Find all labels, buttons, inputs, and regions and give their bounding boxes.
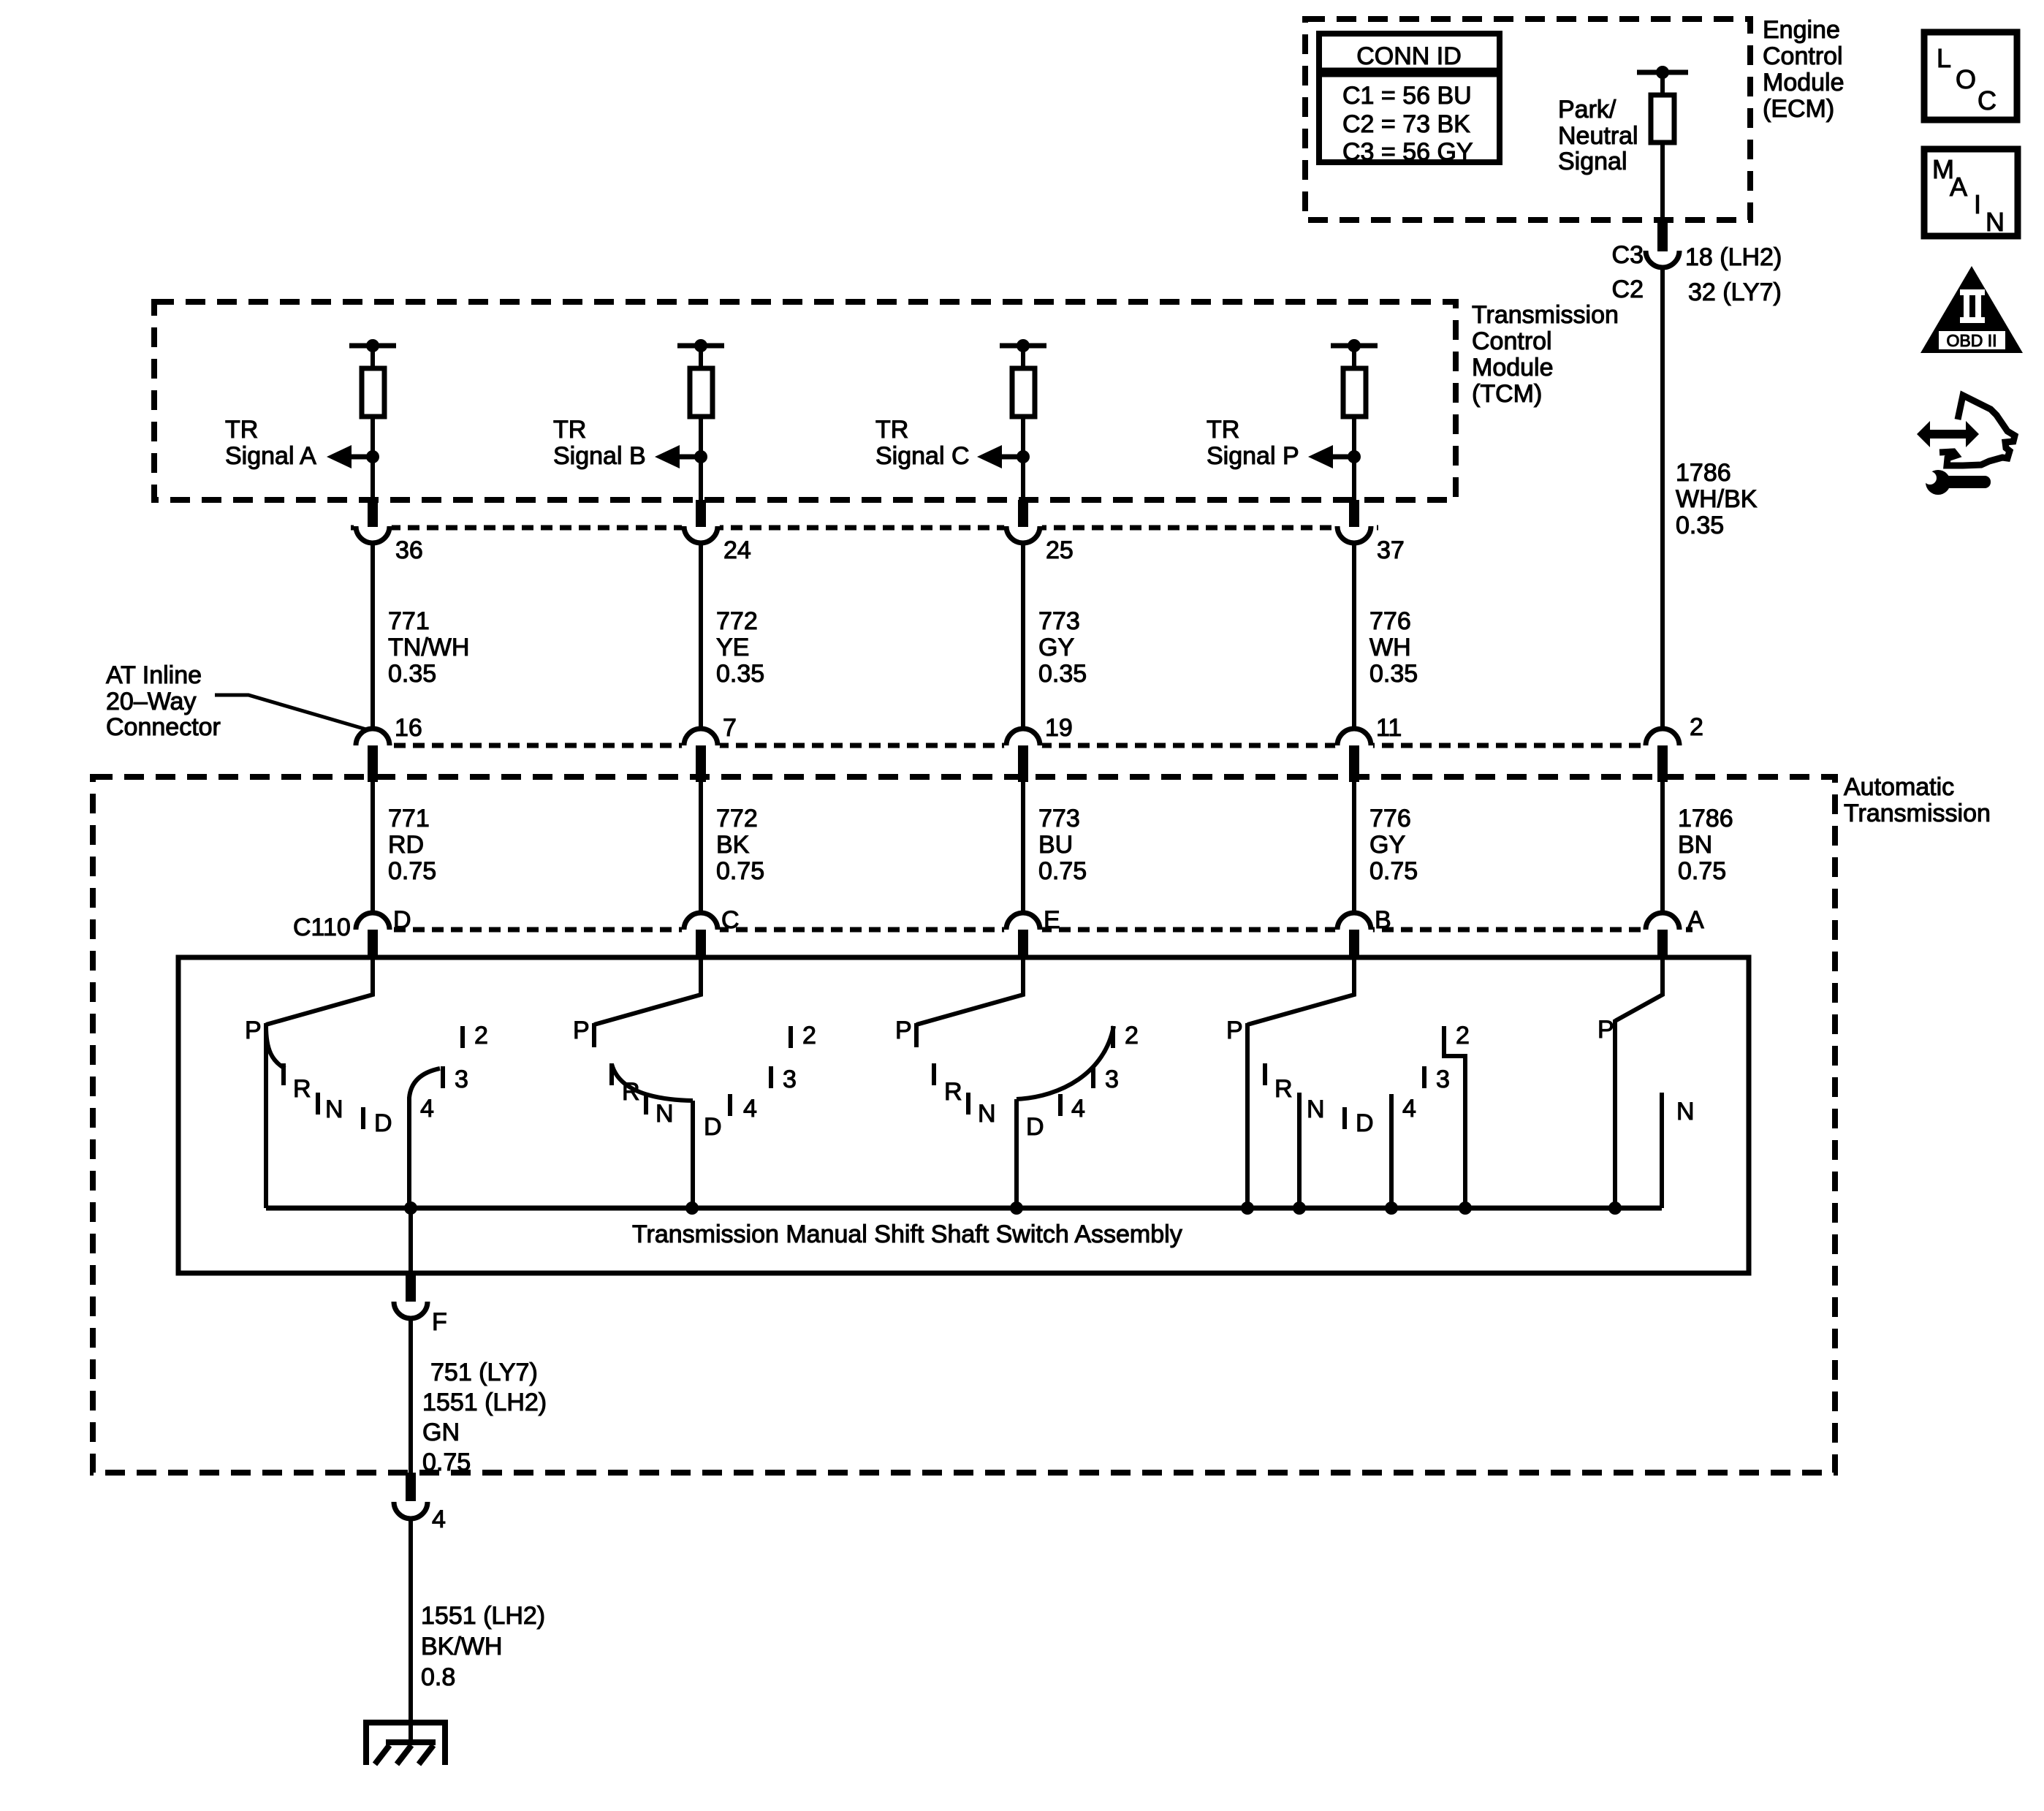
svg-text:Connector: Connector — [106, 713, 221, 741]
svg-text:C3: C3 — [1612, 241, 1644, 269]
switch 2 labels P R N D 4 3 2 — [573, 1017, 816, 1141]
connector cup row1 pin 36 — [356, 526, 390, 543]
switch 4 labels P R N D 4 3 2 — [1226, 1017, 1470, 1137]
icon MAIN box — [1924, 149, 2018, 237]
label Transmission Control Module (TCM) — [1472, 301, 1619, 408]
svg-text:P: P — [573, 1017, 590, 1044]
svg-text:N: N — [656, 1100, 674, 1128]
wire label 771 TN/WH 0.35 — [388, 607, 469, 688]
resistor Park/Neutral Signal — [1651, 95, 1674, 143]
svg-text:GY: GY — [1038, 634, 1074, 661]
svg-text:TR: TR — [875, 416, 908, 444]
svg-text:Signal A: Signal A — [225, 442, 316, 470]
wire col C row2 to row3 (773 BU) — [1021, 776, 1025, 914]
svg-text:11: 11 — [1376, 714, 1402, 742]
svg-text:4: 4 — [1071, 1095, 1085, 1123]
svg-text:772: 772 — [716, 805, 758, 832]
svg-text:TN/WH: TN/WH — [388, 634, 469, 661]
connector arc row2 pin 11 — [1337, 729, 1371, 745]
switch 4 common wire from pin B — [1247, 956, 1354, 1025]
label Engine Control Module (ECM) — [1763, 16, 1844, 123]
wire col A row1 to row2 (771 TN/WH) — [371, 543, 375, 730]
svg-text:TR: TR — [553, 416, 586, 444]
svg-text:B: B — [1375, 906, 1391, 934]
wire col A resistor to TCM border — [366, 417, 379, 500]
svg-text:3: 3 — [455, 1066, 468, 1093]
svg-text:Signal B: Signal B — [553, 442, 646, 470]
svg-text:773: 773 — [1038, 805, 1080, 832]
connector pin stub row2 right — [1657, 745, 1668, 782]
svg-text:O: O — [1956, 64, 1976, 94]
svg-text:GN: GN — [422, 1419, 460, 1446]
svg-text:RD: RD — [388, 831, 424, 859]
svg-text:0.75: 0.75 — [1369, 857, 1418, 885]
ground symbol — [364, 1720, 447, 1765]
connector arc row2 pin 7 — [684, 729, 718, 745]
svg-text:C1 = 56 BU: C1 = 56 BU — [1342, 82, 1472, 110]
switch 3 labels P R N D 4 3 2 — [895, 1017, 1139, 1141]
svg-text:A: A — [1687, 906, 1704, 934]
wire label 771 RD 0.75 — [388, 805, 436, 885]
labels C3 18 (LH2) / C2 32 (LY7) — [1612, 241, 1782, 306]
connector pin stub row3 col B — [696, 930, 706, 956]
wire col P T-bar to resistor — [1352, 346, 1356, 370]
svg-text:776: 776 — [1369, 607, 1411, 635]
connector pin stub row1 col C — [1018, 500, 1028, 527]
connector pin stub F — [406, 1273, 416, 1302]
svg-text:N: N — [1307, 1096, 1325, 1123]
switch 4 N vertical to bus — [1297, 1093, 1302, 1208]
wire col B resistor to TCM border — [694, 417, 707, 500]
svg-text:773: 773 — [1038, 607, 1080, 635]
svg-text:N: N — [325, 1096, 343, 1123]
label TR Signal P — [1207, 416, 1299, 470]
svg-text:771: 771 — [388, 607, 430, 635]
wire label 773 BU 0.75 — [1038, 805, 1087, 885]
wire col A T-bar to resistor — [371, 346, 375, 370]
connector erase masks — [354, 233, 1682, 949]
icon service/check symbol — [1917, 395, 2015, 495]
wire ECM T to resistor — [1660, 72, 1665, 96]
svg-text:BU: BU — [1038, 831, 1073, 859]
svg-text:L: L — [1937, 43, 1951, 73]
label TR Signal B — [553, 416, 646, 470]
wire col C T-bar to resistor — [1021, 346, 1025, 370]
svg-text:2: 2 — [1125, 1022, 1139, 1049]
svg-text:Transmission: Transmission — [1472, 301, 1619, 329]
svg-text:37: 37 — [1377, 536, 1405, 564]
wire col P resistor to TCM border — [1348, 417, 1361, 500]
wire label 751 (LY7) 1551 (LH2) GN 0.75 — [422, 1359, 547, 1476]
svg-text:Signal P: Signal P — [1207, 442, 1299, 470]
svg-text:C2: C2 — [1612, 276, 1644, 303]
wire col A row2 to row3 (771 RD) — [371, 776, 375, 914]
svg-text:20–Way: 20–Way — [106, 688, 196, 715]
svg-text:C110: C110 — [293, 914, 351, 941]
wire switch output to box bottom — [409, 1208, 413, 1273]
svg-text:776: 776 — [1369, 805, 1411, 832]
switch 1 P arm vertical to bus — [264, 1023, 268, 1208]
label Park/Neutral Signal — [1558, 96, 1638, 175]
svg-text:Engine: Engine — [1763, 16, 1840, 44]
svg-text:0.35: 0.35 — [1038, 660, 1087, 688]
svg-text:Control: Control — [1763, 42, 1843, 70]
connector pin stub row1 col P — [1349, 500, 1359, 527]
svg-text:18 (LH2): 18 (LH2) — [1685, 243, 1782, 271]
connector arc row3 pin C — [684, 913, 718, 930]
wire col B row1 to row2 (772 YE) — [699, 543, 703, 730]
icon OBD II triangle — [1920, 266, 2023, 353]
svg-text:(ECM): (ECM) — [1763, 95, 1834, 123]
label AT Inline 20-Way Connector — [106, 661, 221, 741]
TCM module dashed box — [154, 302, 1456, 500]
svg-text:D: D — [393, 906, 411, 934]
switch 3 position ticks R N 4 3 2 — [934, 1026, 1113, 1116]
svg-text:TR: TR — [225, 416, 258, 444]
svg-text:BK: BK — [716, 831, 750, 859]
svg-text:D: D — [374, 1109, 392, 1137]
leader line AT inline connector — [215, 695, 366, 729]
connector cup F — [394, 1302, 428, 1318]
connector arc row2 pin 19 — [1006, 729, 1040, 745]
wire col P row2 to row3 (776 GY) — [1352, 776, 1356, 914]
icon LOC box — [1924, 32, 2017, 120]
svg-text:0.35: 0.35 — [716, 660, 764, 688]
svg-text:YE: YE — [716, 634, 749, 661]
svg-text:CONN ID: CONN ID — [1356, 42, 1462, 70]
svg-text:R: R — [293, 1075, 311, 1103]
switch 5 labels P N — [1597, 1016, 1695, 1125]
node TCM pull-up T-bar col A — [349, 339, 396, 352]
connector pin stub ECM — [1657, 220, 1668, 251]
connector pin stub row3 right — [1657, 930, 1668, 956]
svg-text:24: 24 — [723, 536, 751, 564]
svg-text:A: A — [1950, 172, 1967, 202]
svg-text:N: N — [978, 1100, 996, 1128]
svg-text:772: 772 — [716, 607, 758, 635]
wire 1786 WH/BK from ECM to row2 — [1660, 267, 1665, 730]
connector arc row2 pin 16 — [356, 729, 390, 745]
svg-text:N: N — [1986, 207, 2005, 237]
C110 connector dotted line row 3 — [356, 927, 1692, 933]
wire col P row1 to row2 (776 WH) — [1352, 543, 1356, 730]
connector cup C3/C2 — [1646, 251, 1679, 267]
wire label 776 GY 0.75 — [1369, 805, 1418, 885]
connector pin stub row2 col A — [368, 745, 378, 782]
svg-text:Signal: Signal — [1558, 148, 1627, 175]
svg-text:25: 25 — [1046, 536, 1074, 564]
svg-text:GY: GY — [1369, 831, 1405, 859]
resistor TCM col B — [690, 368, 713, 417]
switch 1 position ticks R N D 3 2 — [284, 1026, 463, 1129]
switch 2 P contact tick — [592, 1023, 596, 1047]
svg-text:R: R — [944, 1078, 962, 1106]
svg-text:2: 2 — [802, 1022, 816, 1049]
svg-text:Automatic: Automatic — [1844, 773, 1954, 801]
svg-text:1786: 1786 — [1678, 805, 1733, 832]
connector pin stub row2 col C — [1018, 745, 1028, 782]
svg-text:BK/WH: BK/WH — [421, 1633, 502, 1660]
node ECM T-bar — [1637, 66, 1688, 79]
svg-text:2: 2 — [1456, 1022, 1470, 1049]
connector arc row3 pin A — [1646, 913, 1679, 930]
svg-text:0.35: 0.35 — [1676, 512, 1724, 539]
svg-text:Transmission Manual Shift Shaf: Transmission Manual Shift Shaft Switch A… — [632, 1220, 1182, 1248]
ECM module dashed box — [1305, 19, 1750, 220]
svg-text:Transmission: Transmission — [1844, 800, 1991, 827]
svg-text:C3 = 56 GY: C3 = 56 GY — [1342, 138, 1473, 166]
svg-text:3: 3 — [1105, 1066, 1119, 1093]
svg-text:771: 771 — [388, 805, 430, 832]
svg-text:0.35: 0.35 — [1369, 660, 1418, 688]
switch 2 output from D to bus — [691, 1101, 695, 1208]
label Automatic Transmission — [1844, 773, 1991, 827]
Automatic Transmission dashed box — [93, 777, 1835, 1473]
svg-text:OBD II: OBD II — [1946, 331, 1996, 350]
connector arc row3 pin E — [1006, 913, 1040, 930]
svg-text:36: 36 — [395, 536, 423, 564]
svg-text:3: 3 — [783, 1066, 797, 1093]
wire label 1551 (LH2) BK/WH 0.8 — [421, 1602, 545, 1691]
switch 5 N vertical to bus — [1660, 1093, 1664, 1208]
CONN ID table — [1319, 34, 1500, 166]
wire label 1786 WH/BK 0.35 — [1676, 459, 1758, 539]
wire ECM resistor to border — [1660, 143, 1665, 220]
switch 1 common wire from pin D — [266, 956, 373, 1025]
bus wire common — [266, 1206, 1662, 1211]
switch 2 arc R to D — [612, 1064, 693, 1101]
switch 3 arc D to 2 — [1017, 1026, 1114, 1099]
label TR Signal C — [875, 416, 970, 470]
svg-text:2: 2 — [1690, 713, 1703, 741]
svg-text:P: P — [1597, 1016, 1614, 1044]
connector arc row3 pin B — [1337, 913, 1371, 930]
svg-text:751 (LY7): 751 (LY7) — [430, 1359, 538, 1386]
svg-text:E: E — [1044, 906, 1060, 934]
svg-text:1551 (LH2): 1551 (LH2) — [421, 1602, 545, 1630]
svg-text:Signal C: Signal C — [875, 442, 970, 470]
svg-text:P: P — [245, 1017, 262, 1044]
svg-text:C: C — [721, 906, 740, 934]
svg-text:0.75: 0.75 — [1678, 857, 1726, 885]
switch 3 common wire from pin E — [916, 956, 1023, 1025]
switch 4 position-2 step to bus — [1444, 1026, 1465, 1208]
svg-text:Park/: Park/ — [1558, 96, 1616, 124]
switch 1 output curve to bus — [409, 1068, 440, 1208]
svg-text:AT Inline: AT Inline — [106, 661, 202, 689]
svg-text:Neutral: Neutral — [1558, 122, 1638, 150]
connector pin stub row3 col P — [1349, 930, 1359, 956]
resistor TCM col C — [1012, 368, 1035, 417]
svg-text:(TCM): (TCM) — [1472, 380, 1542, 408]
switch 4 P arm vertical to bus — [1245, 1023, 1250, 1208]
svg-text:C2 = 73 BK: C2 = 73 BK — [1342, 110, 1470, 138]
svg-text:0.75: 0.75 — [422, 1449, 471, 1476]
switch 4 position ticks R D 3 — [1265, 1063, 1424, 1129]
label TR Signal A — [225, 416, 316, 470]
svg-text:TR: TR — [1207, 416, 1239, 444]
connector cup row1 pin 24 — [684, 526, 718, 543]
svg-text:BN: BN — [1678, 831, 1712, 859]
connector pin stub row3 col A — [368, 930, 378, 956]
svg-text:0.8: 0.8 — [421, 1663, 455, 1691]
arrow TR Signal C — [977, 445, 1023, 468]
wire label 773 GY 0.35 — [1038, 607, 1087, 688]
svg-text:D: D — [1026, 1113, 1044, 1141]
wire 1551 BK/WH to ground — [409, 1519, 413, 1744]
svg-text:1551 (LH2): 1551 (LH2) — [422, 1389, 547, 1416]
svg-text:Module: Module — [1763, 69, 1844, 96]
svg-text:19: 19 — [1045, 714, 1073, 742]
node TCM pull-up T-bar col B — [677, 339, 724, 352]
svg-text:1786: 1786 — [1676, 459, 1731, 487]
svg-text:0.75: 0.75 — [388, 857, 436, 885]
connector pin stub row2 col B — [696, 745, 706, 782]
svg-text:R: R — [622, 1078, 640, 1106]
connector pin stub 4 — [406, 1473, 416, 1501]
svg-text:0.35: 0.35 — [388, 660, 436, 688]
wire col C resistor to TCM border — [1017, 417, 1030, 500]
svg-text:32 (LY7): 32 (LY7) — [1688, 278, 1782, 306]
switch 5 P arm vertical to bus — [1613, 1020, 1617, 1208]
node TCM pull-up T-bar col P — [1331, 339, 1378, 352]
wire label 772 BK 0.75 — [716, 805, 764, 885]
wire 751/1551 GN down to AT border — [409, 1318, 413, 1473]
bus junction dots — [404, 1201, 1622, 1215]
svg-text:N: N — [1676, 1098, 1695, 1125]
resistor TCM col A — [362, 368, 384, 417]
svg-text:4: 4 — [743, 1095, 757, 1123]
switch 2 position ticks R N 4 3 2 — [612, 1026, 791, 1116]
connector pin stub row3 col C — [1018, 930, 1028, 956]
svg-text:Module: Module — [1472, 354, 1554, 381]
svg-text:WH: WH — [1369, 634, 1411, 661]
arrow TR Signal P — [1308, 445, 1354, 468]
svg-text:R: R — [1274, 1075, 1293, 1103]
svg-text:I: I — [1974, 189, 1981, 219]
wire col B row2 to row3 (772 BK) — [699, 776, 703, 914]
svg-text:4: 4 — [1402, 1095, 1416, 1123]
svg-text:4: 4 — [432, 1506, 446, 1533]
connector pin stub row2 col P — [1349, 745, 1359, 782]
connector pin stub row1 col A — [368, 500, 378, 527]
switch 1 labels P R N D 4 3 2 — [245, 1017, 488, 1137]
TCM connector dotted line row 1 — [351, 525, 1378, 531]
wire label 1786 BN 0.75 — [1678, 805, 1733, 885]
arrow TR Signal B — [655, 445, 701, 468]
svg-text:0.75: 0.75 — [716, 857, 764, 885]
wire label 772 YE 0.35 — [716, 607, 764, 688]
svg-text:D: D — [704, 1113, 722, 1141]
svg-text:3: 3 — [1436, 1066, 1450, 1093]
switch 2 common wire from pin C — [594, 956, 701, 1025]
svg-text:2: 2 — [474, 1022, 488, 1049]
switch 5 common wire from pin A — [1615, 956, 1663, 1021]
connector arc row3 pin D — [356, 913, 390, 930]
wire col C row1 to row2 (773 GY) — [1021, 543, 1025, 730]
Transmission Manual Shift Shaft Switch Assembly box — [178, 957, 1749, 1273]
svg-text:F: F — [432, 1308, 447, 1336]
switch 4 position-4 vertical to bus — [1389, 1094, 1394, 1208]
switch 1 arc P to R — [266, 1026, 285, 1068]
svg-text:P: P — [895, 1017, 912, 1044]
wire col B T-bar to resistor — [699, 346, 703, 370]
wire 1786 BN row2 to row3 — [1660, 776, 1665, 914]
wire label 776 WH 0.35 — [1369, 607, 1418, 688]
switch 3 P contact tick — [914, 1023, 919, 1047]
AT inline 20-way connector dotted line row 2 — [356, 743, 1679, 748]
svg-text:0.75: 0.75 — [1038, 857, 1087, 885]
connector cup row1 pin 37 — [1337, 526, 1371, 543]
svg-text:16: 16 — [395, 714, 422, 742]
connector cup 4 — [394, 1502, 428, 1519]
svg-text:D: D — [1356, 1109, 1374, 1137]
svg-text:P: P — [1226, 1017, 1243, 1044]
resistor TCM col P — [1343, 368, 1366, 417]
connector cup row1 pin 25 — [1006, 526, 1040, 543]
svg-text:Control: Control — [1472, 327, 1552, 355]
svg-text:4: 4 — [420, 1095, 434, 1123]
svg-text:WH/BK: WH/BK — [1676, 485, 1758, 513]
switch 3 output from D to bus — [1014, 1099, 1019, 1208]
svg-text:C: C — [1977, 86, 1996, 115]
connector pin stub row1 col B — [696, 500, 706, 527]
arrow TR Signal A — [327, 445, 373, 468]
node TCM pull-up T-bar col C — [1000, 339, 1046, 352]
connector arc row2 pin 2 — [1646, 729, 1679, 745]
svg-text:7: 7 — [723, 714, 737, 742]
